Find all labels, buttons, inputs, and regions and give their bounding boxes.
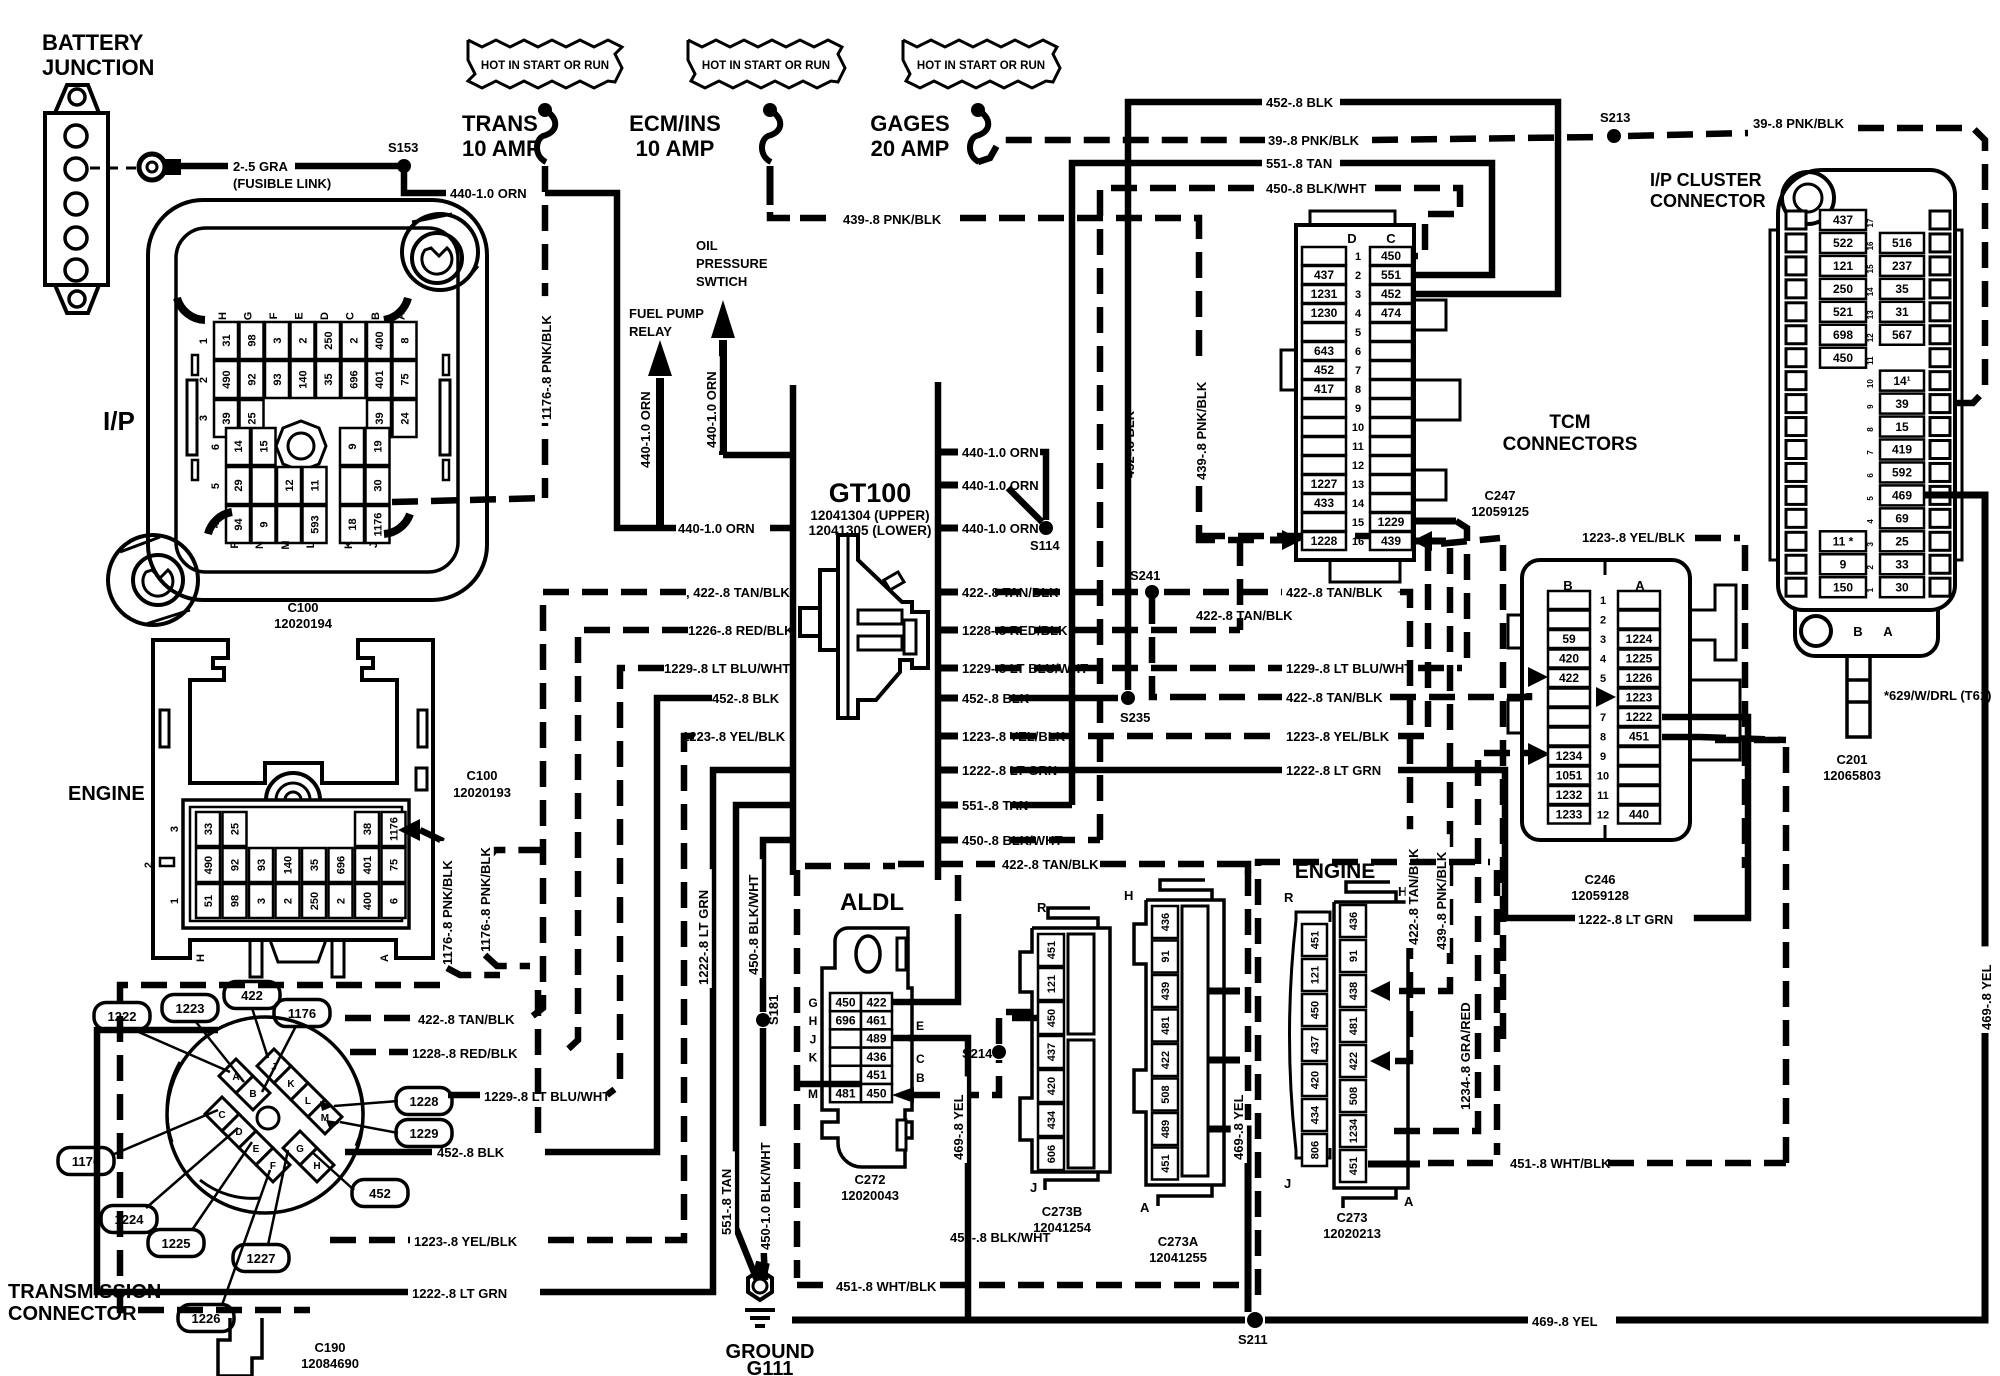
connector C100 I/P (12020194): [103, 200, 487, 625]
C273 pin R 422: [1340, 1045, 1366, 1077]
svg-text:1232: 1232: [1556, 788, 1583, 802]
svg-text:481: 481: [1160, 1016, 1172, 1034]
svg-text:461: 461: [866, 1014, 886, 1028]
svg-text:14: 14: [1866, 287, 1875, 296]
wire: 1228-.8 RED/BLK row: [350, 1049, 408, 1056]
svg-text:9: 9: [1840, 557, 1847, 571]
svg-text:469: 469: [1892, 489, 1912, 503]
svg-text:696: 696: [835, 1014, 855, 1028]
svg-text:439-.8 PNK/BLK: 439-.8 PNK/BLK: [1434, 851, 1449, 950]
svg-text:39: 39: [1895, 397, 1909, 411]
svg-text:C273: C273: [1336, 1210, 1367, 1225]
callout: HOT IN START OR RUN (3): [903, 40, 1060, 88]
transmission pins A B: [219, 1059, 253, 1093]
svg-text:10: 10: [1597, 771, 1609, 783]
svg-text:440-1.0 ORN: 440-1.0 ORN: [638, 391, 653, 468]
C246 row 5: [1548, 669, 1590, 687]
svg-text:452-.8 BLK: 452-.8 BLK: [437, 1145, 505, 1160]
C100 I/P pin grid upper: [214, 322, 238, 359]
wire: 452-.8 BLK left loop: [545, 698, 712, 1152]
svg-text:1222: 1222: [108, 1009, 137, 1024]
svg-text:8: 8: [1600, 732, 1606, 744]
svg-text:401: 401: [362, 856, 374, 874]
svg-text:J: J: [1030, 1180, 1037, 1195]
svg-text:1234: 1234: [1348, 1118, 1360, 1143]
C273 pin L 121: [1302, 959, 1327, 991]
C247 row 2: [1302, 266, 1346, 284]
svg-text:33: 33: [203, 823, 215, 835]
svg-text:1226: 1226: [1626, 671, 1653, 685]
svg-text:436: 436: [1160, 913, 1172, 931]
wire: 39 dashed to right edge and down to cluster pin A9: [1858, 128, 1985, 403]
C100 I/P pin grid lower-right: [340, 428, 364, 465]
svg-text:D: D: [1347, 231, 1356, 246]
svg-text:C100: C100: [466, 768, 497, 783]
svg-text:C246: C246: [1584, 872, 1615, 887]
transmission callout 1228: [396, 1088, 452, 1115]
svg-text:1176: 1176: [388, 817, 400, 841]
wire: battery to ring terminal (dashed): [90, 167, 140, 170]
svg-text:451: 451: [1309, 931, 1321, 949]
svg-text:12020193: 12020193: [453, 785, 511, 800]
wire: 1229-.8 LT BLU/WHT left loop: [607, 668, 664, 1095]
svg-text:1229-.8 LT BLU/WHT: 1229-.8 LT BLU/WHT: [484, 1089, 610, 1104]
svg-text:1176: 1176: [372, 513, 384, 537]
wire: 422-.8 TAN/BLK top of box: [898, 861, 995, 868]
C247 row 7: [1302, 361, 1346, 379]
wire: C273A 489 to S211: [1208, 1129, 1248, 1312]
svg-text:12059125: 12059125: [1471, 504, 1529, 519]
svg-text:G: G: [243, 312, 255, 321]
svg-text:1: 1: [1355, 251, 1361, 263]
C201 row 13: [1786, 303, 1806, 321]
svg-text:15: 15: [1352, 517, 1364, 529]
svg-text:9: 9: [258, 521, 270, 527]
connector C246 TCM (12059128): [1508, 560, 1740, 840]
svg-text:7: 7: [1355, 365, 1361, 377]
svg-text:434: 434: [1046, 1110, 1058, 1129]
svg-text:38: 38: [362, 823, 374, 835]
transmission pins G H: [283, 1131, 317, 1165]
svg-text:6: 6: [1866, 473, 1875, 478]
dashed box around C246: [1500, 545, 1507, 1045]
svg-text:H: H: [1124, 888, 1133, 903]
C273 pin L 434: [1302, 1099, 1327, 1131]
wire: 1229-.8 LT BLU/WHT row right: [995, 665, 1282, 672]
svg-text:9: 9: [1600, 751, 1606, 763]
svg-text:420: 420: [1046, 1077, 1058, 1095]
C273 pin R 481: [1340, 1010, 1366, 1042]
svg-text:13: 13: [1866, 310, 1875, 319]
svg-text:ENGINE: ENGINE: [68, 783, 145, 805]
C246 row 11: [1548, 786, 1590, 804]
svg-text:121: 121: [1833, 259, 1853, 273]
svg-text:1223-.8 YEL/BLK: 1223-.8 YEL/BLK: [414, 1234, 518, 1249]
svg-text:C100: C100: [287, 600, 318, 615]
C247 row 13: [1302, 475, 1346, 493]
svg-text:M: M: [280, 540, 292, 549]
C273A pin 422: [1152, 1044, 1178, 1076]
wire: 452-.8 BLK top: [1128, 102, 1262, 690]
svg-text:1227: 1227: [1311, 477, 1338, 491]
C246 row 12: [1548, 806, 1590, 824]
C201 row 10: [1786, 372, 1806, 390]
svg-text:(FUSIBLE LINK): (FUSIBLE LINK): [233, 176, 331, 191]
svg-text:GAGES: GAGES: [870, 111, 949, 136]
svg-text:L: L: [305, 1096, 311, 1107]
svg-text:1223-.8 YEL/BLK: 1223-.8 YEL/BLK: [1286, 729, 1390, 744]
svg-text:K: K: [809, 1051, 818, 1065]
svg-text:51: 51: [203, 895, 215, 907]
C273 pin L 437: [1302, 1029, 1327, 1061]
svg-text:29: 29: [233, 479, 245, 491]
wire: 450-.8 BLK/WHT top dashed: [1100, 188, 1262, 840]
svg-text:35: 35: [309, 859, 321, 871]
wire: 469-.8 YEL bottom run: [792, 1317, 1245, 1324]
svg-text:G: G: [296, 1144, 304, 1155]
svg-text:33: 33: [1895, 557, 1909, 571]
svg-text:12020213: 12020213: [1323, 1226, 1381, 1241]
svg-text:75: 75: [399, 373, 411, 385]
svg-text:481: 481: [835, 1086, 855, 1100]
svg-text:551-.8 TAN: 551-.8 TAN: [719, 1169, 734, 1235]
svg-text:450: 450: [1309, 1001, 1321, 1019]
wire: 440-1.0 ORN from S153 down right to vertical: [404, 166, 446, 193]
wire: ALDL 451 feed: [800, 1081, 861, 1088]
svg-text:14¹: 14¹: [1893, 374, 1910, 388]
svg-text:1222-.8 LT GRN: 1222-.8 LT GRN: [696, 890, 711, 985]
svg-text:B: B: [249, 1089, 256, 1100]
svg-text:440-1.0 ORN: 440-1.0 ORN: [962, 521, 1039, 536]
svg-text:I/P CLUSTER: I/P CLUSTER: [1650, 170, 1762, 190]
svg-text:1222-.8 LT GRN: 1222-.8 LT GRN: [412, 1286, 507, 1301]
svg-text:4: 4: [1866, 519, 1875, 524]
svg-text:440-1.0 ORN: 440-1.0 ORN: [962, 445, 1039, 460]
C246 row 4: [1548, 650, 1590, 668]
svg-text:606: 606: [1046, 1145, 1058, 1163]
svg-text:TCM: TCM: [1549, 412, 1590, 433]
svg-text:1: 1: [169, 898, 181, 904]
svg-text:2: 2: [297, 337, 309, 343]
svg-text:696: 696: [335, 856, 347, 874]
connector C190: [218, 1318, 262, 1376]
svg-text:4: 4: [1600, 654, 1607, 666]
wire: 440 ORN jumpers to S114: [1040, 452, 1046, 520]
svg-text:434: 434: [1309, 1105, 1321, 1124]
wire: 1176-.8 PNK/BLK dashed from I/P pin J to fuse line: [392, 498, 545, 502]
svg-text:422: 422: [1559, 671, 1579, 685]
C273A pin 91: [1152, 941, 1178, 973]
wire: 1223-.8 YEL/BLK row: [330, 1237, 410, 1244]
svg-text:L: L: [305, 541, 317, 548]
svg-text:12041254: 12041254: [1033, 1220, 1092, 1235]
C100 ENGINE pin grid: [183, 800, 409, 928]
svg-text:12059128: 12059128: [1571, 888, 1629, 903]
svg-text:8: 8: [1355, 384, 1361, 396]
svg-text:R: R: [1284, 890, 1294, 905]
wire: 1176-.8 PNK/BLK vertical A: [444, 855, 451, 962]
svg-text:6: 6: [388, 898, 400, 904]
svg-text:9: 9: [1866, 404, 1875, 409]
C273 pin L 420: [1302, 1064, 1327, 1096]
wire: C273A 439 stub: [1208, 988, 1240, 995]
svg-text:15: 15: [1895, 420, 1909, 434]
wire: 422-.8 TAN/BLK S241 row: [995, 589, 1140, 596]
svg-text:E: E: [253, 1144, 260, 1155]
svg-text:12041255: 12041255: [1149, 1250, 1207, 1265]
svg-text:1233: 1233: [1556, 808, 1583, 822]
svg-text:469-.8 YEL: 469-.8 YEL: [1231, 1094, 1246, 1160]
svg-text:10 AMP: 10 AMP: [462, 136, 541, 161]
svg-text:1224: 1224: [1626, 632, 1653, 646]
svg-text:551-.8 TAN: 551-.8 TAN: [1266, 156, 1332, 171]
C201 row 5: [1786, 486, 1806, 504]
C201 row 11: [1786, 349, 1806, 367]
svg-text:489: 489: [866, 1032, 886, 1046]
svg-text:M: M: [808, 1087, 818, 1101]
transmission callout 1176: [274, 1000, 330, 1027]
dashed box ENGINE C273: [1258, 862, 1490, 1295]
svg-text:806: 806: [1309, 1141, 1321, 1159]
wire: 450 row right: [1010, 837, 1100, 844]
svg-text:7: 7: [1866, 450, 1875, 455]
svg-text:CONNECTORS: CONNECTORS: [1503, 434, 1638, 455]
wire: 451-.8 WHT/BLK bottom dashed: [797, 1282, 832, 1289]
svg-text:1229-.8 LT BLU/WHT: 1229-.8 LT BLU/WHT: [664, 661, 790, 676]
svg-text:24: 24: [399, 412, 411, 425]
C247 row 12: [1302, 456, 1346, 474]
C273B pin 121: [1038, 968, 1064, 1000]
svg-text:436: 436: [1348, 912, 1360, 930]
svg-text:1226-.8 RED/BLK: 1226-.8 RED/BLK: [688, 623, 794, 638]
svg-text:121: 121: [1046, 975, 1058, 993]
svg-text:K: K: [287, 1079, 295, 1090]
C273 pin R 508: [1340, 1080, 1366, 1112]
C273A pin 436: [1152, 906, 1178, 938]
svg-text:14: 14: [1352, 498, 1365, 510]
svg-text:400: 400: [362, 892, 374, 910]
svg-text:13: 13: [1352, 479, 1364, 491]
svg-text:A: A: [1883, 624, 1893, 639]
svg-text:C: C: [345, 312, 357, 320]
svg-text:2: 2: [143, 862, 155, 868]
svg-text:S241: S241: [1130, 568, 1160, 583]
svg-text:3: 3: [169, 826, 181, 832]
svg-text:1: 1: [198, 338, 210, 344]
svg-text:437: 437: [1833, 213, 1853, 227]
svg-text:696: 696: [348, 370, 360, 388]
C273 pin L 451: [1302, 924, 1327, 956]
svg-text:12084690: 12084690: [301, 1356, 359, 1371]
transmission pins J K L M: [257, 1049, 291, 1083]
C273B pin 420: [1038, 1070, 1064, 1102]
svg-text:3: 3: [1355, 289, 1361, 301]
svg-text:422-.8 TAN/BLK: 422-.8 TAN/BLK: [1286, 585, 1383, 600]
svg-text:3: 3: [272, 337, 284, 343]
wire: 1176-.8 PNK/BLK vertical B: [485, 850, 540, 862]
C247 row 16: [1302, 532, 1346, 550]
svg-text:35: 35: [323, 373, 335, 385]
svg-text:5: 5: [1600, 673, 1606, 685]
svg-text:H: H: [809, 1014, 818, 1028]
svg-text:490: 490: [203, 856, 215, 874]
wire: 439-.8 PNK/BLK down to C273: [1394, 548, 1450, 991]
GT100 right bus: [935, 382, 942, 880]
dashed harness box left: [794, 870, 801, 1278]
svg-text:419: 419: [1892, 443, 1912, 457]
C201 row 14: [1786, 280, 1806, 298]
wire: ALDL 450 to S214: [892, 1087, 914, 1103]
svg-text:A: A: [1404, 1194, 1414, 1209]
svg-text:59: 59: [1562, 632, 1576, 646]
connector C100 ENGINE (12020193): [68, 640, 433, 958]
svg-text:S235: S235: [1120, 710, 1150, 725]
C247 row 4: [1302, 304, 1346, 322]
svg-text:GT100: GT100: [829, 478, 912, 508]
svg-text:75: 75: [388, 859, 400, 871]
C201 row 12: [1786, 326, 1806, 344]
svg-text:93: 93: [272, 373, 284, 385]
wire: 1228-.8 RED/BLK row right: [995, 627, 1240, 634]
svg-text:39-.8 PNK/BLK: 39-.8 PNK/BLK: [1753, 116, 1845, 131]
C247 row 3: [1302, 285, 1346, 303]
C246 row 7: [1548, 708, 1590, 726]
svg-text:B: B: [370, 312, 382, 320]
wire: 1176-.8 PNK/BLK dashed down from TRANS fuse: [542, 166, 549, 498]
svg-text:1225: 1225: [162, 1236, 191, 1251]
svg-text:450: 450: [1046, 1009, 1058, 1027]
wire: 422-.8 TAN/BLK down to C273: [1394, 592, 1410, 1061]
wire: 1222-.8 LT GRN row right: [1010, 767, 1282, 774]
wire: C247 D16 1228 arrow: [1282, 530, 1302, 550]
svg-text:HOT IN START OR RUN: HOT IN START OR RUN: [481, 60, 609, 72]
wire: 1222-.8 LT GRN row: [97, 1030, 408, 1292]
svg-text:452-.8 BLK: 452-.8 BLK: [712, 691, 780, 706]
wire: 551-.8 TAN down to ground: [736, 805, 793, 1280]
svg-text:698: 698: [1833, 328, 1853, 342]
svg-text:422-.8 TAN/BLK: 422-.8 TAN/BLK: [1196, 608, 1293, 623]
svg-text:B: B: [916, 1071, 925, 1085]
svg-text:25: 25: [229, 823, 241, 835]
svg-text:451: 451: [1629, 730, 1649, 744]
svg-text:PRESSURE: PRESSURE: [696, 256, 768, 271]
svg-text:11: 11: [1866, 356, 1875, 365]
C100 I/P pin grid lower-left: [226, 428, 250, 465]
svg-text:C201: C201: [1836, 752, 1867, 767]
svg-text:11: 11: [1352, 441, 1364, 453]
ground G111: [726, 1261, 815, 1376]
svg-text:1234-.8 GRA/RED: 1234-.8 GRA/RED: [1458, 1002, 1473, 1110]
svg-text:12: 12: [1597, 810, 1609, 822]
svg-text:*629/W/DRL (T61): *629/W/DRL (T61): [1884, 688, 1991, 703]
wire: 1222-.8 LT GRN left loop: [540, 770, 793, 1292]
svg-text:16: 16: [1866, 241, 1875, 250]
C247 row 5: [1302, 323, 1346, 341]
wire: ALDL 489 out: [892, 1035, 912, 1042]
svg-text:R: R: [1037, 900, 1047, 915]
svg-text:30: 30: [1895, 580, 1909, 594]
C273 pin R 436: [1340, 905, 1366, 937]
svg-text:15: 15: [1866, 264, 1875, 273]
C201 row 1: [1786, 578, 1806, 596]
svg-text:1223: 1223: [1626, 691, 1653, 705]
wire: 1176 arrow into ENGINE C100: [398, 819, 420, 841]
C201 row 15: [1786, 257, 1806, 275]
svg-text:490: 490: [221, 370, 233, 388]
svg-text:140: 140: [297, 370, 309, 388]
svg-text:C272: C272: [854, 1172, 885, 1187]
C246 row 8: [1548, 728, 1590, 746]
svg-text:1231: 1231: [1311, 287, 1338, 301]
svg-text:92: 92: [246, 373, 258, 385]
C273B pin 437: [1038, 1036, 1064, 1068]
wire: C246 451 out: [1662, 734, 1700, 741]
svg-text:12: 12: [284, 479, 296, 491]
svg-text:474: 474: [1381, 306, 1401, 320]
C272 pin table: [830, 993, 861, 1011]
svg-text:TRANS: TRANS: [462, 111, 538, 136]
wire: C247 C16 439 stub: [1412, 531, 1432, 551]
svg-text:1176-.8 PNK/BLK: 1176-.8 PNK/BLK: [539, 315, 554, 420]
svg-text:1229: 1229: [410, 1126, 439, 1141]
C201 row 7: [1786, 441, 1806, 459]
svg-text:35: 35: [1895, 282, 1909, 296]
C273 pin R 91: [1340, 940, 1366, 972]
svg-text:N: N: [254, 541, 266, 549]
svg-text:3: 3: [198, 415, 210, 421]
svg-text:450-.8 BLK/WHT: 450-.8 BLK/WHT: [746, 875, 761, 975]
transmission callout 422: [224, 982, 280, 1009]
svg-text:CONNECTOR: CONNECTOR: [8, 1303, 137, 1325]
svg-text:1229-.8 LT BLU/WHT: 1229-.8 LT BLU/WHT: [962, 661, 1088, 676]
svg-text:440-1.0 ORN: 440-1.0 ORN: [450, 186, 527, 201]
C273A pin 439: [1152, 975, 1178, 1007]
svg-text:91: 91: [1348, 950, 1360, 962]
transmission callout 1227: [233, 1245, 289, 1272]
svg-text:1176: 1176: [288, 1006, 316, 1021]
svg-text:11: 11: [1597, 790, 1609, 802]
C247 row 1: [1302, 247, 1346, 265]
svg-text:1: 1: [1866, 587, 1875, 592]
svg-text:3: 3: [256, 898, 268, 904]
callout: HOT IN START OR RUN (2): [688, 40, 845, 88]
svg-text:15: 15: [258, 440, 270, 452]
splice S235: [1121, 691, 1135, 705]
svg-text:92: 92: [229, 859, 241, 871]
svg-text:2: 2: [335, 898, 347, 904]
svg-text:417: 417: [1314, 382, 1334, 396]
svg-text:420: 420: [1559, 652, 1579, 666]
C273A pin 451: [1152, 1148, 1178, 1180]
C201 row 2: [1786, 555, 1806, 573]
svg-text:422-.8 TAN/BLK: 422-.8 TAN/BLK: [418, 1012, 515, 1027]
C246 row 1: [1548, 591, 1590, 609]
svg-text:5: 5: [1866, 496, 1875, 501]
svg-text:437: 437: [1309, 1036, 1321, 1054]
svg-text:422-.8 TAN/BLK: 422-.8 TAN/BLK: [1286, 690, 1383, 705]
C273A pin 481: [1152, 1010, 1178, 1042]
C247 row 15: [1302, 513, 1346, 531]
C246 row 6: [1548, 689, 1590, 707]
svg-text:7: 7: [1600, 712, 1606, 724]
C201 row 8: [1786, 418, 1806, 436]
transmission callout leaders: [134, 1030, 230, 1072]
svg-text:C: C: [1386, 231, 1396, 246]
svg-text:469-.8 YEL: 469-.8 YEL: [951, 1094, 966, 1160]
svg-text:1: 1: [1600, 595, 1606, 607]
svg-text:J: J: [810, 1032, 817, 1046]
svg-text:1229-.8 LT BLU/WHT: 1229-.8 LT BLU/WHT: [1286, 661, 1412, 676]
